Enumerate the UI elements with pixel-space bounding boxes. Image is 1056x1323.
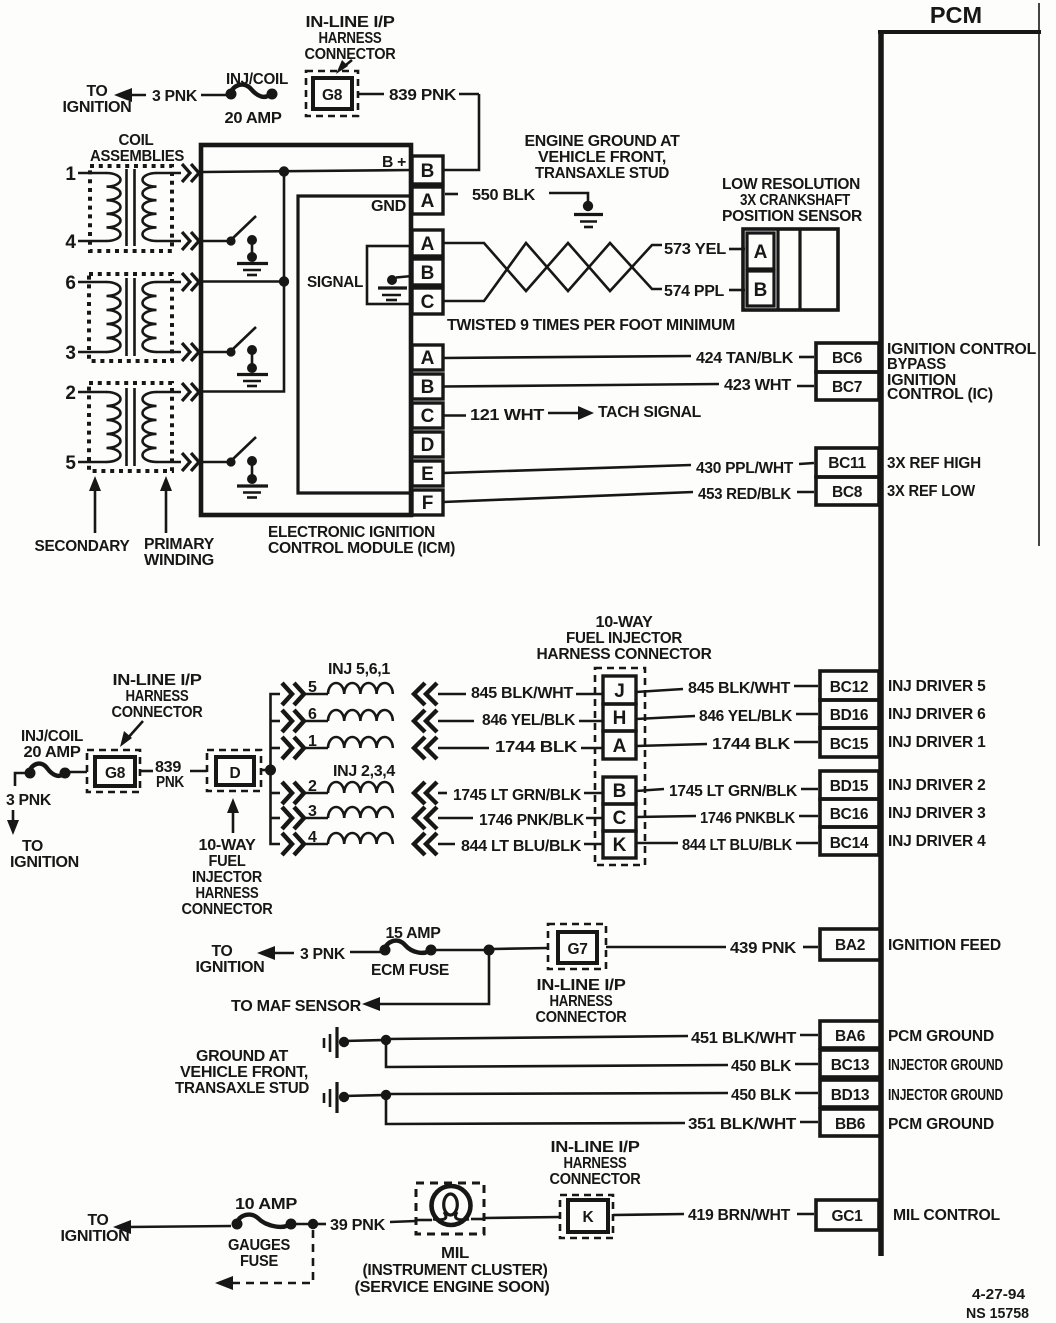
ICM module box xyxy=(201,145,411,515)
switch Q1 (coil 4 driver) xyxy=(226,216,257,262)
label COIL ASSEMBLIES xyxy=(90,132,184,165)
label 10-WAY FUEL INJECTOR HARNESS CONNECTOR (top) xyxy=(537,614,712,663)
coil assembly box 2-5 (dashed) xyxy=(89,383,172,471)
terminal BC8 xyxy=(816,477,879,505)
label INJ DRIVER 5 xyxy=(888,678,986,695)
wire 846 YEL/BLK to BD16 xyxy=(636,708,818,725)
svg-text:1744 BLK: 1744 BLK xyxy=(712,736,791,753)
wire fuse to MIL junction xyxy=(294,1223,311,1226)
twisted pair wire C to 574 PPL xyxy=(443,243,662,301)
svg-text:BC7: BC7 xyxy=(832,379,862,396)
svg-text:3 PNK: 3 PNK xyxy=(300,946,346,963)
connector chevrons wire 5 xyxy=(182,453,199,471)
sensor pin A xyxy=(747,233,774,269)
wire fuse to junction xyxy=(434,949,486,952)
svg-text:TO: TO xyxy=(22,838,43,855)
label 3X REF LOW xyxy=(887,483,976,500)
pin B (signal) xyxy=(412,259,443,285)
svg-text:844 LT BLU/BLK: 844 LT BLU/BLK xyxy=(682,837,793,854)
svg-text:TO: TO xyxy=(87,83,108,100)
label IGNITION CONTROL BYPASS xyxy=(887,341,1036,373)
terminal BC12 xyxy=(820,671,879,700)
svg-text:3 PNK: 3 PNK xyxy=(6,792,52,809)
PCM module label xyxy=(930,2,982,28)
wire fuse to G8 xyxy=(68,771,87,774)
wire label 3 PNK (middle) xyxy=(6,792,52,809)
svg-text:INJECTOR: INJECTOR xyxy=(192,869,262,886)
ground (chassis stud 2) xyxy=(324,1082,337,1113)
terminal BC13 xyxy=(820,1050,881,1077)
wire 1746 PNK/BLK to pin C xyxy=(438,812,603,829)
wire 845 BLK/WHT to pin J xyxy=(438,685,603,702)
wire 5 to switch xyxy=(203,461,231,464)
svg-text:FUSE: FUSE xyxy=(240,1253,278,1270)
wire 839 PNK (middle) xyxy=(140,759,207,791)
svg-text:IN-LINE I/P: IN-LINE I/P xyxy=(537,977,626,994)
svg-text:573 YEL: 573 YEL xyxy=(664,241,726,258)
pin A (ICM out) xyxy=(412,345,443,370)
svg-text:IGNITION: IGNITION xyxy=(63,99,132,116)
svg-text:430 PPL/WHT: 430 PPL/WHT xyxy=(696,460,794,477)
wire MIL to K xyxy=(484,1217,560,1218)
node 2 xyxy=(65,383,181,404)
svg-text:439 PNK: 439 PNK xyxy=(730,940,797,957)
node gauges fuse junction xyxy=(308,1219,318,1229)
svg-text:IGNITION: IGNITION xyxy=(10,854,79,871)
svg-text:BC13: BC13 xyxy=(831,1057,870,1074)
pin H xyxy=(603,704,636,731)
injector feed bus xyxy=(271,694,281,844)
node 4 xyxy=(65,232,181,253)
svg-text:TO MAF SENSOR: TO MAF SENSOR xyxy=(231,998,361,1015)
pin A (10-way) xyxy=(603,731,636,759)
svg-text:HARNESS: HARNESS xyxy=(550,993,613,1010)
svg-text:ELECTRONIC IGNITION: ELECTRONIC IGNITION xyxy=(268,524,435,541)
coil 6-3 secondary winding xyxy=(107,282,121,352)
injector 5: chevrons, coil xyxy=(282,679,437,705)
svg-text:IGNITION: IGNITION xyxy=(196,959,265,976)
svg-text:TRANSAXLE STUD: TRANSAXLE STUD xyxy=(175,1080,309,1097)
label SECONDARY with arrow xyxy=(35,476,131,555)
svg-text:A: A xyxy=(421,348,435,369)
node ECM feed junction xyxy=(484,945,495,956)
ground (switch Q3) xyxy=(237,486,268,498)
coil 1-4 core xyxy=(127,169,135,246)
label TO IGNITION (top) xyxy=(63,83,132,116)
svg-text:HARNESS: HARNESS xyxy=(319,30,382,47)
svg-text:845 BLK/WHT: 845 BLK/WHT xyxy=(471,685,574,702)
terminal BC15 xyxy=(820,728,879,757)
arrow down to ignition (middle) xyxy=(7,810,79,871)
svg-text:(INSTRUMENT CLUSTER): (INSTRUMENT CLUSTER) xyxy=(363,1262,548,1279)
label LOW RESOLUTION 3X CRANKSHAFT POSITION SENSOR xyxy=(722,176,862,225)
svg-text:CONTROL MODULE (ICM): CONTROL MODULE (ICM) xyxy=(268,540,455,557)
node junction on B+ wire xyxy=(279,166,289,176)
svg-text:HARNESS: HARNESS xyxy=(126,688,189,705)
svg-text:C: C xyxy=(613,808,627,829)
svg-text:A: A xyxy=(421,234,435,255)
svg-text:SIGNAL: SIGNAL xyxy=(307,274,363,291)
svg-text:SECONDARY: SECONDARY xyxy=(35,538,131,555)
svg-text:D: D xyxy=(230,765,241,782)
arrow to ignition (bottom) xyxy=(113,1220,231,1234)
coil 6-3 primary winding xyxy=(143,282,157,352)
svg-text:BC15: BC15 xyxy=(830,736,869,753)
label B+ xyxy=(382,154,406,171)
label TO IGNITION (ECM fuse row) xyxy=(196,943,265,976)
node junction bus wire 6 xyxy=(203,276,289,286)
wire 844 LT BLU/BLK to BC14 xyxy=(636,837,818,854)
coil 1-4 primary winding xyxy=(142,173,156,241)
svg-text:450 BLK: 450 BLK xyxy=(731,1058,792,1075)
svg-text:IGNITION FEED: IGNITION FEED xyxy=(888,937,1001,954)
svg-text:B: B xyxy=(421,263,435,284)
wire 845 BLK/WHT to BC12 xyxy=(636,680,818,697)
svg-text:PNK: PNK xyxy=(156,774,185,791)
svg-text:FUEL INJECTOR: FUEL INJECTOR xyxy=(566,630,682,647)
B+ bus vertical xyxy=(203,172,284,392)
label INJ DRIVER 2 xyxy=(888,777,986,794)
label in-line I/P harness connector (top) xyxy=(305,14,396,74)
wire D to injector bus xyxy=(261,769,268,772)
terminal BD16 xyxy=(820,700,879,728)
coil 2-5 primary winding xyxy=(143,392,157,462)
svg-text:B: B xyxy=(421,377,435,398)
wire 3 PNK (ECM fuse row) xyxy=(300,946,381,963)
svg-text:419 BRN/WHT: 419 BRN/WHT xyxy=(688,1207,791,1224)
terminal BC11 xyxy=(816,448,879,477)
connector K xyxy=(560,1195,613,1238)
label in-line I/P harness connector (bottom) xyxy=(550,1139,641,1188)
terminal GC1 xyxy=(816,1200,879,1230)
svg-text:PCM GROUND: PCM GROUND xyxy=(888,1116,994,1133)
svg-text:INJ DRIVER 5: INJ DRIVER 5 xyxy=(888,678,986,695)
svg-text:K: K xyxy=(583,1209,595,1226)
svg-text:1745 LT GRN/BLK: 1745 LT GRN/BLK xyxy=(669,783,798,800)
svg-text:839 PNK: 839 PNK xyxy=(389,87,457,104)
svg-text:BB6: BB6 xyxy=(835,1116,866,1133)
pin C (10-way) xyxy=(603,804,636,831)
svg-text:A: A xyxy=(613,736,627,757)
svg-text:INJ DRIVER 2: INJ DRIVER 2 xyxy=(888,777,986,794)
ground (switch Q2) xyxy=(237,375,268,387)
wire 424 TAN/BLK xyxy=(443,350,814,367)
svg-text:PRIMARY: PRIMARY xyxy=(144,536,215,553)
svg-text:MIL: MIL xyxy=(441,1245,469,1262)
wire 430 PPL/WHT xyxy=(443,460,814,477)
wire 1744 BLK to BC15 xyxy=(636,736,818,753)
ground (chassis stud 1) xyxy=(324,1027,337,1058)
svg-text:INJ 5,6,1: INJ 5,6,1 xyxy=(328,661,391,678)
wire 351 BLK/WHT xyxy=(386,1095,818,1133)
injector 4: chevrons, coil xyxy=(282,829,437,855)
label PRIMARY WINDING with arrow xyxy=(144,476,215,569)
label INJECTOR GROUND (BC13) xyxy=(888,1057,1003,1074)
label ELECTRONIC IGNITION CONTROL MODULE (ICM) xyxy=(268,524,455,557)
svg-text:B: B xyxy=(754,280,768,301)
PCM right edge xyxy=(1038,3,1040,546)
connector chevrons wire 6 xyxy=(182,273,199,291)
node ground 2 xyxy=(339,1092,383,1102)
svg-text:COIL: COIL xyxy=(119,132,154,149)
fuse GAUGES 10 AMP xyxy=(228,1196,297,1270)
pin B (10-way) xyxy=(603,777,636,804)
fuse INJ/COIL 20 AMP xyxy=(225,71,289,127)
svg-text:G8: G8 xyxy=(322,87,343,104)
coil assembly box 6-3 (dashed) xyxy=(89,274,172,361)
svg-text:ASSEMBLIES: ASSEMBLIES xyxy=(90,148,184,165)
svg-text:846 YEL/BLK: 846 YEL/BLK xyxy=(699,708,793,725)
node ground 1 junction xyxy=(381,1035,391,1045)
fuse ECM 15 AMP xyxy=(371,925,449,979)
wire 846 YEL/BLK to pin H xyxy=(438,712,603,729)
svg-text:G8: G8 xyxy=(105,765,126,782)
wire 423 WHT xyxy=(443,377,814,394)
pin A (signal) xyxy=(412,230,443,256)
svg-text:424 TAN/BLK: 424 TAN/BLK xyxy=(696,350,794,367)
wire 4 to switch xyxy=(203,240,231,243)
wire junction to G7 xyxy=(492,948,548,949)
label 3X REF HIGH xyxy=(887,455,981,472)
label INJ DRIVER 6 xyxy=(888,706,986,723)
svg-text:GAUGES: GAUGES xyxy=(228,1237,290,1254)
svg-text:(SERVICE ENGINE SOON): (SERVICE ENGINE SOON) xyxy=(355,1279,550,1296)
svg-text:1744 BLK: 1744 BLK xyxy=(495,739,578,756)
pin K (10-way) xyxy=(603,831,636,858)
svg-text:NS 15758: NS 15758 xyxy=(966,1305,1029,1322)
svg-text:BD16: BD16 xyxy=(830,707,869,724)
svg-text:CONNECTOR: CONNECTOR xyxy=(536,1009,627,1026)
svg-text:HARNESS: HARNESS xyxy=(564,1155,627,1172)
svg-text:BD15: BD15 xyxy=(830,778,869,795)
pin E (ICM out) xyxy=(412,461,443,486)
label TACH SIGNAL xyxy=(598,404,701,421)
connector chevrons wire 2 xyxy=(182,383,199,401)
svg-text:POSITION SENSOR: POSITION SENSOR xyxy=(722,208,862,225)
label 10-WAY FUEL INJECTOR HARNESS CONNECTOR (left) with arrow xyxy=(182,798,273,918)
pin C (ICM out) xyxy=(412,403,443,428)
wire 450 BLK (BC13) xyxy=(386,1040,818,1075)
label ENGINE GROUND AT VEHICLE FRONT TRANSAXLE STUD xyxy=(525,133,681,182)
label INJ DRIVER 4 xyxy=(888,833,986,850)
svg-text:1745 LT GRN/BLK: 1745 LT GRN/BLK xyxy=(453,787,582,804)
label INJ DRIVER 1 xyxy=(888,734,986,751)
svg-text:BD13: BD13 xyxy=(831,1087,870,1104)
wire 419 BRN/WHT xyxy=(613,1207,814,1224)
signal inner box xyxy=(298,196,412,493)
pin D (ICM out) xyxy=(412,432,443,457)
svg-text:GROUND AT: GROUND AT xyxy=(196,1048,289,1065)
svg-text:6: 6 xyxy=(65,273,76,294)
wire 3 PNK (top) xyxy=(152,88,228,105)
label GND xyxy=(371,198,406,215)
svg-text:INJ DRIVER 1: INJ DRIVER 1 xyxy=(888,734,986,751)
svg-text:B: B xyxy=(613,781,627,802)
svg-text:PCM: PCM xyxy=(930,2,982,28)
pin A (GND) xyxy=(412,187,443,214)
wire 3 to switch xyxy=(203,351,231,354)
svg-text:G7: G7 xyxy=(567,941,587,958)
svg-text:BA2: BA2 xyxy=(835,937,865,954)
wire 451 BLK/WHT xyxy=(386,1030,818,1047)
svg-text:10 AMP: 10 AMP xyxy=(235,1196,297,1213)
connector chevrons wire 3 xyxy=(182,343,199,361)
PCM top edge xyxy=(878,30,1041,34)
pin F (ICM out) xyxy=(412,490,443,515)
svg-text:BC14: BC14 xyxy=(830,835,869,852)
svg-text:PCM GROUND: PCM GROUND xyxy=(888,1028,994,1045)
svg-text:574 PPL: 574 PPL xyxy=(664,283,724,300)
svg-text:1746 PNK/BLK: 1746 PNK/BLK xyxy=(479,812,585,829)
svg-text:INJECTOR GROUND: INJECTOR GROUND xyxy=(888,1087,1003,1104)
coil 2-5 core xyxy=(127,388,135,466)
svg-text:BA6: BA6 xyxy=(835,1028,866,1045)
connector D xyxy=(207,750,261,791)
arrow to ignition (top) xyxy=(114,88,146,102)
fuse INJ/COIL 20 AMP (middle) xyxy=(21,728,83,779)
wire 1745 LT GRN/BLK to BD15 xyxy=(636,783,818,800)
label PCM GROUND (BB6) xyxy=(888,1116,994,1133)
label in-line I/P harness connector (G7) xyxy=(536,977,627,1026)
svg-text:CONNECTOR: CONNECTOR xyxy=(182,901,273,918)
svg-text:ENGINE GROUND AT: ENGINE GROUND AT xyxy=(525,133,681,150)
svg-text:MIL CONTROL: MIL CONTROL xyxy=(893,1207,1000,1224)
ground (switch Q1) xyxy=(237,264,268,276)
svg-text:10-WAY: 10-WAY xyxy=(199,837,257,854)
label INJECTOR GROUND (BD13) xyxy=(888,1087,1003,1104)
label MIL (INSTRUMENT CLUSTER) (SERVICE ENGINE SOON) xyxy=(355,1245,550,1296)
svg-text:846 YEL/BLK: 846 YEL/BLK xyxy=(482,712,576,729)
svg-text:H: H xyxy=(613,708,627,729)
pin B (B+) xyxy=(412,156,443,184)
svg-text:20 AMP: 20 AMP xyxy=(24,744,81,761)
wire B+ inside ICM xyxy=(203,170,412,172)
svg-text:J: J xyxy=(614,681,625,702)
svg-text:550 BLK: 550 BLK xyxy=(472,187,536,204)
svg-text:HARNESS CONNECTOR: HARNESS CONNECTOR xyxy=(537,646,712,663)
svg-text:A: A xyxy=(421,191,435,212)
node 1 xyxy=(65,164,181,185)
MIL lamp dashed box xyxy=(416,1183,484,1234)
dashed branch arrow (gauges fuse) xyxy=(215,1230,313,1290)
svg-text:BC8: BC8 xyxy=(832,484,863,501)
node ground 2 junction xyxy=(381,1090,391,1100)
svg-text:TO: TO xyxy=(212,943,233,960)
svg-text:1: 1 xyxy=(65,164,76,185)
svg-text:GC1: GC1 xyxy=(832,1208,864,1225)
lamp MIL xyxy=(416,1186,484,1225)
svg-text:IN-LINE I/P: IN-LINE I/P xyxy=(113,672,202,689)
connector chevrons wire 1 xyxy=(182,164,199,182)
connector chevrons wire 4 xyxy=(182,232,199,250)
terminal BC7 xyxy=(816,372,879,400)
label MIL CONTROL xyxy=(893,1207,1000,1224)
svg-text:2: 2 xyxy=(65,383,76,404)
svg-text:BC11: BC11 xyxy=(828,455,866,472)
svg-text:TACH SIGNAL: TACH SIGNAL xyxy=(598,404,701,421)
injector 6: chevrons, coil xyxy=(282,706,437,732)
node engine ground xyxy=(583,201,593,211)
svg-text:BC12: BC12 xyxy=(830,679,868,696)
svg-text:4-27-94: 4-27-94 xyxy=(972,1286,1026,1303)
wire 453 RED/BLK xyxy=(443,486,814,503)
svg-text:VEHICLE FRONT,: VEHICLE FRONT, xyxy=(538,149,666,166)
terminal BB6 xyxy=(820,1109,881,1136)
wire 439 PNK xyxy=(606,940,818,957)
label TO IGNITION (bottom) xyxy=(61,1212,130,1245)
coil assembly box 1-4 (dashed) xyxy=(90,166,172,251)
svg-text:D: D xyxy=(421,435,435,456)
wire to MAF sensor xyxy=(231,950,489,1015)
pin J xyxy=(603,676,636,704)
svg-text:WINDING: WINDING xyxy=(144,552,214,569)
node injector feed junction xyxy=(265,765,276,776)
svg-text:351 BLK/WHT: 351 BLK/WHT xyxy=(688,1116,797,1133)
svg-text:IGNITION: IGNITION xyxy=(61,1228,130,1245)
label INJ 2,3,4 xyxy=(333,763,396,780)
injector 3: chevrons, coil xyxy=(282,803,437,829)
switch Q3 (coil 5 driver) xyxy=(226,437,257,484)
pin B (ICM out) xyxy=(412,374,443,399)
svg-text:BYPASS: BYPASS xyxy=(887,356,946,373)
label TWISTED 9 TIMES PER FOOT MINIMUM xyxy=(447,317,735,334)
wire from ignition (middle) xyxy=(15,773,26,786)
label INJ DRIVER 3 xyxy=(888,805,986,822)
svg-text:4: 4 xyxy=(65,232,76,253)
svg-text:10-WAY: 10-WAY xyxy=(596,614,654,631)
svg-text:INJ DRIVER 4: INJ DRIVER 4 xyxy=(888,833,986,850)
svg-text:3X REF HIGH: 3X REF HIGH xyxy=(887,455,981,472)
svg-text:39 PNK: 39 PNK xyxy=(330,1217,386,1234)
svg-text:INJ DRIVER 6: INJ DRIVER 6 xyxy=(888,706,986,723)
label INJ 5,6,1 xyxy=(328,661,391,678)
connector G7 xyxy=(548,924,606,969)
label GROUND AT VEHICLE FRONT TRANSAXLE STUD xyxy=(175,1048,309,1097)
svg-text:FUEL: FUEL xyxy=(209,853,246,870)
svg-text:K: K xyxy=(613,835,627,856)
label in-line I/P harness connector (middle) xyxy=(112,672,203,747)
node 5 xyxy=(65,453,181,474)
svg-text:845 BLK/WHT: 845 BLK/WHT xyxy=(688,680,791,697)
ground (signal shield) xyxy=(378,288,407,300)
wire 450 BLK (BD13) xyxy=(386,1087,818,1104)
svg-text:CONNECTOR: CONNECTOR xyxy=(550,1171,641,1188)
svg-text:INJ/COIL: INJ/COIL xyxy=(21,728,83,745)
svg-text:C: C xyxy=(421,406,435,427)
connector G8 (top) xyxy=(306,71,358,116)
ground (engine, 550 BLK) xyxy=(574,215,603,228)
svg-text:IN-LINE I/P: IN-LINE I/P xyxy=(551,1139,640,1156)
svg-text:VEHICLE FRONT,: VEHICLE FRONT, xyxy=(180,1064,308,1081)
wire label 574 PPL xyxy=(664,283,745,300)
svg-text:C: C xyxy=(421,292,435,313)
svg-text:CONNECTOR: CONNECTOR xyxy=(112,704,203,721)
wire 39 PNK xyxy=(316,1217,416,1234)
note 4-27-94 NS 15758 xyxy=(966,1286,1029,1322)
svg-text:121 WHT: 121 WHT xyxy=(470,407,545,424)
svg-text:844 LT BLU/BLK: 844 LT BLU/BLK xyxy=(461,838,582,855)
svg-text:INJECTOR GROUND: INJECTOR GROUND xyxy=(888,1057,1003,1074)
switch Q2 (coil 3 driver) xyxy=(226,327,257,373)
svg-text:TWISTED 9 TIMES PER FOOT MINIM: TWISTED 9 TIMES PER FOOT MINIMUM xyxy=(447,317,735,334)
wire 1744 BLK to pin A xyxy=(438,739,603,756)
injector 2: chevrons, coil xyxy=(282,778,437,804)
svg-text:TO: TO xyxy=(88,1212,109,1229)
wire 121 WHT tach xyxy=(443,406,594,424)
label PCM GROUND (BA6) xyxy=(888,1028,994,1045)
injector 1: chevrons, coil xyxy=(282,733,437,759)
svg-text:CONTROL (IC): CONTROL (IC) xyxy=(887,386,993,403)
